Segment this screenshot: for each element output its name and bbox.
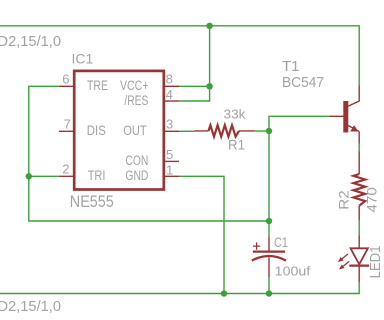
transistor T1 emitter arrow <box>350 125 358 131</box>
wire VCC top rail <box>0 26 359 86</box>
pin 1 GND stub <box>163 175 179 177</box>
pin 6 TRE stub <box>59 85 75 87</box>
wire R2 to LED1 <box>358 221 360 236</box>
wire emitter to R2 <box>358 144 360 152</box>
svg-text:TRE: TRE <box>87 78 108 93</box>
svg-text:6: 6 <box>62 72 69 87</box>
wire pin2 to left loop <box>29 175 59 177</box>
svg-text:GND: GND <box>125 168 148 183</box>
svg-text:CON: CON <box>125 153 148 168</box>
junction bottom rail C1 <box>266 290 272 296</box>
wire pin6 left loop to bottom <box>29 86 269 221</box>
transistor T1 collector <box>348 86 359 107</box>
junction pin2 left <box>26 173 32 179</box>
pin 8 VCC+ stub <box>163 85 179 87</box>
pin 5 CON stub <box>163 160 179 162</box>
svg-text:DIS: DIS <box>87 123 106 138</box>
svg-text:R2: R2 <box>336 190 351 210</box>
svg-text:BC547: BC547 <box>282 74 324 91</box>
capacitor C1 top lead <box>268 236 270 251</box>
svg-text:D2,15/1,0: D2,15/1,0 <box>0 34 61 50</box>
svg-text:7: 7 <box>64 117 71 132</box>
LED LED1 bottom lead <box>358 266 360 283</box>
svg-text:VCC+: VCC+ <box>120 78 149 93</box>
transistor T1 base lead <box>330 115 344 117</box>
pin 4 /RES stub <box>163 100 179 102</box>
op-amp U1 body: IC1 NE555 box <box>74 71 164 190</box>
LED LED1 light arrow lower <box>339 261 349 269</box>
wire C1 to bottom rail <box>268 278 270 294</box>
svg-text:LED1: LED1 <box>367 246 384 279</box>
svg-text:33k: 33k <box>224 107 247 122</box>
wire R1 right to node <box>255 130 270 132</box>
wire pin8 to VCC drop <box>179 85 210 87</box>
wire pin1 GND to bottom rail <box>179 176 224 293</box>
svg-text:OUT: OUT <box>123 123 147 138</box>
wire VCC drop to IC <box>179 26 210 101</box>
resistor R1 zigzag <box>209 125 240 136</box>
capacitor C1 bottom plate arc <box>252 256 286 261</box>
svg-text:2: 2 <box>62 162 69 177</box>
LED LED1 cathode bar <box>349 264 369 266</box>
pin 3 OUT stub <box>163 130 179 132</box>
svg-text:TRI: TRI <box>88 168 106 183</box>
transistor Q1 T1 base bar <box>343 101 348 133</box>
pin 7 DIS stub <box>59 130 75 132</box>
svg-text:NE555: NE555 <box>70 193 114 211</box>
svg-text:T1: T1 <box>282 58 300 75</box>
capacitor C1 plus sign <box>253 242 260 249</box>
capacitor C1 bottom lead <box>268 258 270 278</box>
svg-text:470: 470 <box>364 187 379 212</box>
svg-text:3: 3 <box>166 117 173 132</box>
svg-text:4: 4 <box>166 87 173 102</box>
svg-text:8: 8 <box>166 72 173 87</box>
junction top rail <box>206 23 212 29</box>
svg-text:C1: C1 <box>274 234 288 250</box>
wire bottom rail <box>0 282 359 293</box>
transistor T1 emitter <box>348 125 359 143</box>
wire node to transistor base <box>269 116 330 131</box>
svg-text:D2,15/1,0: D2,15/1,0 <box>0 299 61 315</box>
capacitor C1 top plate <box>253 250 285 252</box>
svg-text:R1: R1 <box>228 137 245 153</box>
svg-text:5: 5 <box>166 147 173 162</box>
svg-text:/RES: /RES <box>124 93 148 108</box>
resistor R2 zigzag <box>353 174 365 206</box>
LED LED1 triangle <box>351 248 368 264</box>
svg-text:1: 1 <box>166 162 173 177</box>
pin 2 TRI stub <box>59 175 75 177</box>
LED LED1 top lead <box>358 236 360 249</box>
junction R1/base node <box>266 128 272 134</box>
wire pin3 OUT segment <box>179 130 195 132</box>
junction bottom rail pin1 <box>221 290 227 296</box>
wire node down to C1 <box>268 131 270 236</box>
LED LED1 light arrow upper <box>338 254 348 262</box>
resistor R2 leads <box>358 152 360 221</box>
junction pin8/VCC <box>206 83 212 89</box>
resistor R1 leads <box>195 130 255 132</box>
junction left loop/C1 node <box>266 218 272 224</box>
svg-text:IC1: IC1 <box>72 51 94 67</box>
svg-text:100uf: 100uf <box>275 263 311 278</box>
